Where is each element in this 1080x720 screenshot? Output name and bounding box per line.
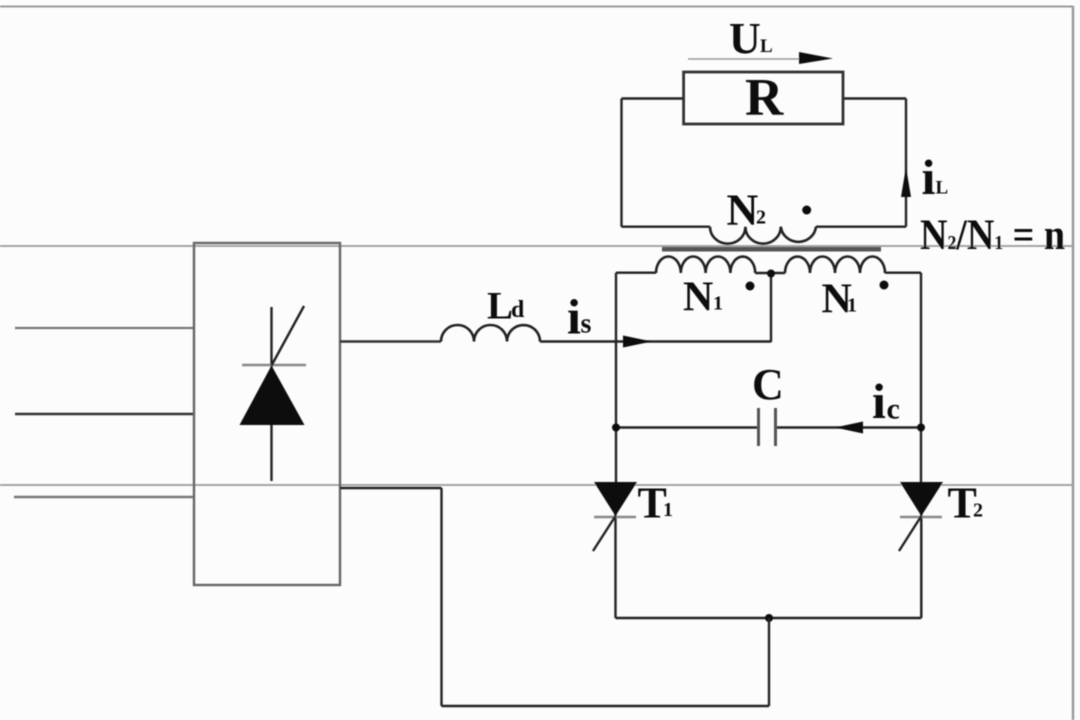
svg-text:N: N	[683, 275, 713, 321]
svg-text:R: R	[745, 69, 784, 127]
svg-text:i: i	[872, 373, 886, 429]
svg-text:L: L	[936, 178, 949, 199]
svg-text:N: N	[727, 185, 759, 234]
svg-text:C: C	[752, 360, 784, 409]
svg-text:1: 1	[713, 293, 723, 315]
svg-text:1: 1	[847, 295, 857, 317]
svg-text:L: L	[760, 36, 773, 57]
svg-text:i: i	[567, 289, 581, 345]
svg-text:2: 2	[756, 207, 766, 229]
svg-text:d: d	[511, 297, 525, 323]
svg-text:s: s	[581, 309, 592, 340]
svg-text:U: U	[729, 14, 761, 63]
svg-text:i: i	[922, 149, 936, 205]
svg-text:N2/N1 = n: N2/N1 = n	[920, 212, 1065, 259]
svg-text:c: c	[887, 393, 900, 426]
svg-text:1: 1	[663, 499, 673, 521]
svg-text:2: 2	[973, 500, 983, 522]
svg-text:L: L	[487, 285, 513, 328]
